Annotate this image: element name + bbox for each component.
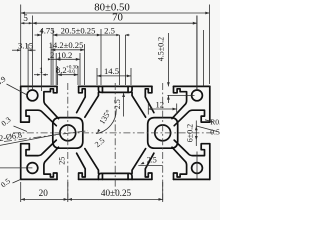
svg-text:3.15: 3.15 <box>18 40 33 50</box>
node left center hole &#216;6.8 <box>60 125 76 141</box>
wire top slot A right lip <box>77 86 86 112</box>
wire left face <box>20 86 22 179</box>
wire right face <box>209 86 211 179</box>
dimension 6±0.2 <box>195 121 197 147</box>
dimension 14.2±0.25 <box>50 44 52 85</box>
svg-text:2.5: 2.5 <box>104 26 115 36</box>
svg-text:70: 70 <box>112 11 123 23</box>
svg-text:2.5: 2.5 <box>147 156 157 165</box>
dimension 5 <box>21 22 33 24</box>
dimension 4.5±0.2 <box>167 33 169 86</box>
centerline vertical middle <box>114 83 116 192</box>
wire top slot B left lip <box>145 86 154 112</box>
dimension 3.15 <box>12 49 21 51</box>
dimension 20.5±0.25 <box>52 29 54 85</box>
centerline horizontal <box>13 132 215 134</box>
node top-left corner hole <box>27 90 38 101</box>
svg-text:-0.0: -0.0 <box>67 70 75 75</box>
svg-text:R0.5: R0.5 <box>210 118 220 127</box>
wire top slot A left lip (bottom) <box>44 147 59 179</box>
svg-text:14.5: 14.5 <box>104 66 119 76</box>
svg-text:40±0.25: 40±0.25 <box>101 188 132 198</box>
dimension 12 <box>147 104 149 115</box>
wire middle top channel <box>98 86 132 92</box>
wire bottom face <box>21 178 210 180</box>
wire top face <box>21 85 210 87</box>
wire top slot M right edge (bottom) <box>127 173 129 179</box>
svg-text:4.75: 4.75 <box>39 26 54 36</box>
svg-text:20: 20 <box>39 188 49 198</box>
dimension 8.2 <box>57 66 59 85</box>
wire left slot upper lip <box>21 110 57 126</box>
wire top slot M right wall <box>132 92 146 117</box>
dimension 40±0.25 <box>162 182 164 202</box>
svg-text:6±0.2: 6±0.2 <box>186 124 195 142</box>
dimension 20 bottom <box>20 182 22 202</box>
wire top slot M right wall (bottom) <box>132 149 146 174</box>
wire left hub web <box>53 118 83 149</box>
dimension 2.5 web <box>138 165 162 167</box>
wire top slot A right lip (bottom) <box>77 153 86 179</box>
centerline diagonal 2-O6.8 <box>4 131 88 142</box>
wire right hub web <box>148 118 178 149</box>
wire top slot A left lip <box>44 86 59 118</box>
wire right slot lower lip <box>174 140 210 156</box>
wire top slot B right lip (bottom) <box>172 147 187 179</box>
wire top slot M right edge <box>127 86 129 92</box>
dimension 2.5 lip <box>123 93 125 117</box>
wire top slot B right lip <box>172 86 187 118</box>
dimension 2 <box>48 58 51 60</box>
centerline vertical slot A <box>67 83 69 202</box>
dimension 14.5 <box>96 68 98 85</box>
dimension 80±0.50 <box>20 5 22 87</box>
svg-text:12: 12 <box>156 99 165 109</box>
wire top slot M left wall (bottom) <box>85 149 99 174</box>
node bottom-left corner hole <box>27 163 38 174</box>
svg-text:20.5±0.25: 20.5±0.25 <box>61 26 96 36</box>
wire middle bottom channel <box>98 173 132 179</box>
dimension 2.5 top <box>119 35 121 85</box>
svg-text:25: 25 <box>58 157 67 165</box>
dimension 135° <box>96 109 116 134</box>
wire extension line right <box>203 30 205 86</box>
svg-text:2: 2 <box>50 50 54 60</box>
node top-right corner hole <box>192 90 203 101</box>
svg-text:1: 1 <box>39 65 43 75</box>
wire top slot M left wall <box>85 92 99 117</box>
wire left slot lower lip <box>21 140 57 156</box>
svg-text:2.5: 2.5 <box>113 99 122 109</box>
dimension 1 <box>34 74 40 76</box>
dimension 4.75 <box>41 29 43 91</box>
svg-text:5: 5 <box>23 13 28 23</box>
svg-text:4.5±0.2: 4.5±0.2 <box>157 37 166 61</box>
svg-text:14.2±0.25: 14.2±0.25 <box>49 40 84 50</box>
dimension 70 <box>31 16 33 90</box>
wire corner hole axis right top <box>196 16 198 90</box>
centerline vertical slot B <box>162 83 164 202</box>
dimension 10.2 <box>55 53 57 85</box>
wire BL hole leader <box>0 167 32 169</box>
wire top slot M left edge (bottom) <box>101 173 103 179</box>
wire BR hole axis <box>196 152 198 180</box>
node bottom-right corner hole <box>192 163 203 174</box>
wire top slot B left lip (bottom) <box>145 153 154 179</box>
svg-text:10.2: 10.2 <box>57 50 72 60</box>
wire top slot M left edge <box>101 86 103 92</box>
node right center hole &#216;6.8 <box>155 125 171 141</box>
wire right slot upper lip <box>174 110 210 126</box>
